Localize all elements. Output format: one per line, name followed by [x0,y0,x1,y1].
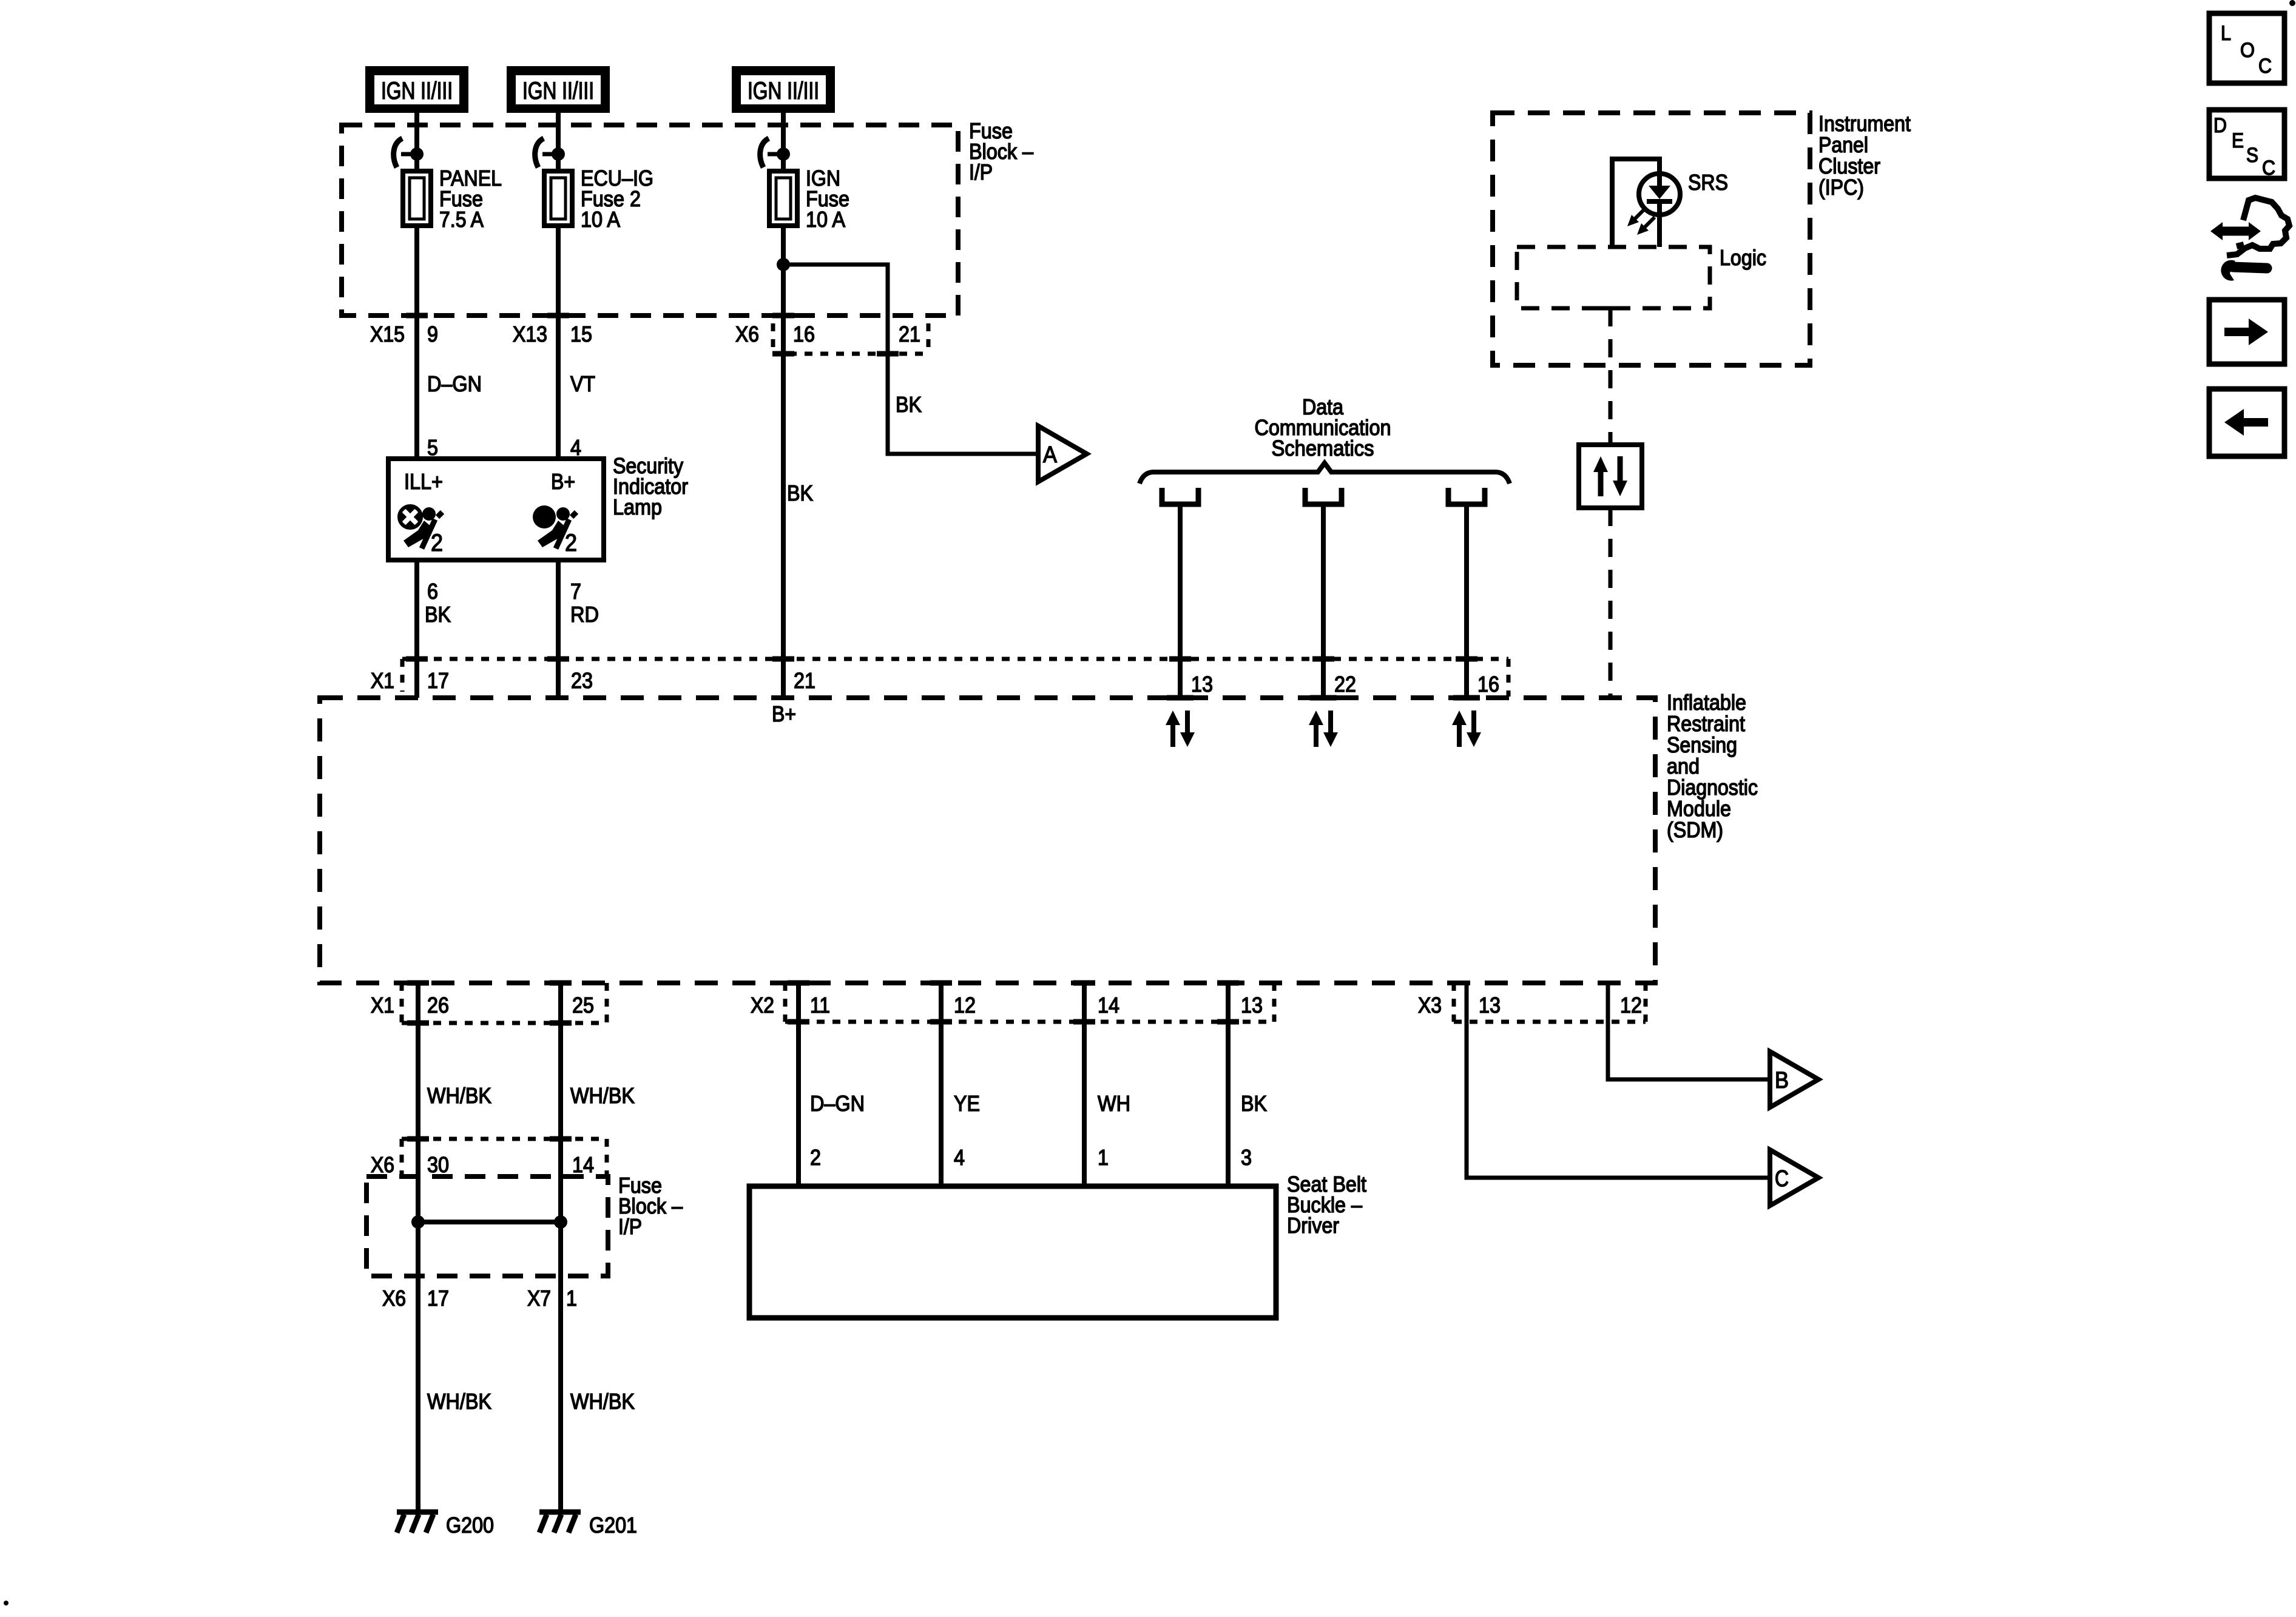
svg-text:1: 1 [566,1286,577,1311]
svg-text:2: 2 [810,1145,821,1170]
svg-text:Driver: Driver [1287,1213,1339,1238]
svg-text:X1: X1 [371,668,394,693]
svg-text:7.5 A: 7.5 A [439,207,484,232]
svg-text:X6: X6 [382,1286,406,1311]
wire: lamp pin7 RD to SDM pin23 [556,560,561,698]
wire: SDM pin26 WH/BK to G200 [416,983,420,1511]
wire: branch BK to connector A [783,265,1038,454]
svg-text:WH/BK: WH/BK [427,1083,491,1108]
svg-text:WH/BK: WH/BK [427,1389,491,1414]
svg-text:26: 26 [427,993,449,1018]
svg-text:17: 17 [427,668,449,693]
svg-text:BK: BK [425,602,451,627]
brace over data link sockets [1140,463,1510,484]
svg-text:6: 6 [427,579,438,604]
connector X2 pins 11/12/14/13 (dotted box) [783,983,788,1022]
svg-text:ILL+: ILL+ [404,469,443,494]
svg-text:X13: X13 [513,322,547,346]
airbag icon 2 [533,505,577,556]
fuse clip hook wire2 [542,152,558,157]
wire: SDM X2 to seat belt buckle x=2024 [1226,983,1231,1186]
pin ticks at fuse block exits [406,313,428,319]
wire: data link 1945 to SDM [1178,507,1183,698]
wire: IGN feed 1 (x=687) to lamp ILL+ [414,113,419,459]
icon box LOC [2209,13,2284,83]
junction G201 leg [554,1215,567,1229]
connector X1 pins 26/25 (dotted box) [400,983,404,1023]
svg-text:B: B [1775,1068,1789,1093]
serial data box [1579,445,1642,508]
svg-text:13: 13 [1191,672,1213,697]
svg-text:2: 2 [431,530,443,556]
svg-text:IGN II/III: IGN II/III [748,78,819,104]
svg-text:Schematics: Schematics [1272,436,1374,461]
svg-text:X7: X7 [527,1286,551,1311]
svg-text:IGN II/III: IGN II/III [381,78,453,104]
power feed box B1 IGN II/III [365,66,468,113]
fuse block I/P outline (dashed) [342,125,958,316]
fuse block I/P (lower) outline (dashed) [366,1176,608,1276]
svg-text:G200: G200 [446,1513,494,1538]
svg-text:Lamp: Lamp [613,495,662,519]
svg-text:16: 16 [1477,672,1499,697]
instrument panel cluster outline (dashed) [1493,113,1810,365]
svg-text:7: 7 [570,579,581,604]
svg-text:30: 30 [427,1152,449,1177]
svg-text:22: 22 [1334,672,1356,697]
svg-text:X15: X15 [370,322,405,346]
svg-text:IGN II/III: IGN II/III [522,78,594,104]
off-page connector A [1038,426,1087,482]
svg-text:12: 12 [954,993,976,1018]
IPC logic box (dashed) [1517,247,1710,308]
wire: SDM pin25 WH/BK to G201 [558,983,563,1511]
svg-text:O: O [2240,39,2255,62]
power feed box B3 IGN II/III [732,66,835,113]
up/down arrows pin x=2181 [1309,711,1338,747]
svg-text:4: 4 [570,435,581,460]
svg-text:(IPC): (IPC) [1818,175,1864,200]
LED SRS indicator [1639,174,1680,215]
wire: logic to SDM (dashed) [1598,306,1622,311]
wire: IGN feed 3 (x=1291) to SDM pin 21 [781,113,786,698]
svg-text:D–GN: D–GN [427,371,482,396]
svg-text:C: C [2262,157,2275,180]
svg-text:VT: VT [570,371,595,396]
svg-text:WH: WH [1098,1091,1130,1116]
svg-text:(SDM): (SDM) [1667,817,1723,842]
svg-text:16: 16 [793,322,815,346]
security indicator lamp box [388,459,604,560]
svg-text:21: 21 [899,322,920,346]
svg-text:10 A: 10 A [806,207,845,232]
SRS lamp circuit loop [1612,159,1660,247]
pin ticks at SDM X1 exits [407,981,429,986]
svg-text:X6: X6 [371,1152,394,1177]
data link socket x=2181 [1305,488,1342,504]
wire: SDM X2 to seat belt buckle x=1316 [796,983,801,1186]
junction G200 leg [411,1215,425,1229]
svg-text:1: 1 [1098,1145,1109,1170]
LED light arrows [1627,209,1655,235]
svg-text:5: 5 [427,435,438,460]
SDM module outline (dashed) [320,698,1655,983]
icon vehicle data / wrench [2210,198,2289,281]
svg-text:C: C [2258,55,2272,78]
junction on wire3 [777,258,790,271]
fuse ECU-IG Fuse 2 10 A [544,171,572,226]
svg-text:E: E [2232,129,2244,152]
up/down arrows in serial data box [1593,456,1627,496]
svg-text:D: D [2213,114,2227,137]
svg-text:13: 13 [1241,993,1263,1018]
svg-text:BK: BK [1241,1091,1267,1116]
svg-text:B+: B+ [772,701,796,726]
ground G200 [397,1512,438,1533]
svg-text:SRS: SRS [1688,170,1728,195]
svg-text:B+: B+ [551,469,575,494]
wire: lamp pin6 BK to SDM pin17 [414,560,419,698]
data link socket x=1945 [1162,488,1198,504]
off-page connector B [1770,1052,1818,1107]
fuse clip hook wire1 [401,152,417,157]
svg-text:BK: BK [787,481,813,505]
icon box arrow left [2209,389,2284,456]
fuse IGN Fuse 10 A [769,171,797,226]
ground G201 [539,1512,581,1533]
wire: data link 2417 to SDM [1464,507,1469,698]
svg-text:X6: X6 [735,322,759,346]
svg-text:BK: BK [896,392,922,417]
svg-text:X1: X1 [371,993,394,1018]
wire: SDM X2 to seat belt buckle x=1551 [939,983,944,1186]
svg-text:14: 14 [572,1152,594,1177]
svg-text:WH/BK: WH/BK [570,1083,635,1108]
airbag icon (crossed) 2 [399,505,443,556]
wire: bridge inside fuse block [418,1220,561,1224]
wire: SDM X3 pin13 to connector C [1467,983,1770,1178]
svg-text:25: 25 [572,993,594,1018]
svg-text:21: 21 [794,668,815,693]
svg-text:9: 9 [427,322,438,346]
power feed box B2 IGN II/III [507,66,610,113]
svg-text:L: L [2221,22,2231,45]
off-page connector C [1770,1150,1818,1206]
svg-text:S: S [2246,144,2258,167]
svg-text:C: C [1775,1166,1789,1192]
wire: data link 2181 to SDM [1321,507,1326,698]
wire: IGN feed 2 (x=920) to lamp B+ [556,113,561,459]
pin ticks at X1 connector row [406,657,428,662]
wire: SDM X3 pin12 to connector B [1608,983,1770,1079]
svg-text:17: 17 [427,1286,449,1311]
svg-text:I/P: I/P [969,160,993,184]
icon box DESC [2209,110,2284,178]
connector X3 pins 13/12 (dotted box) [1452,983,1456,1022]
svg-text:14: 14 [1098,993,1119,1018]
svg-text:15: 15 [570,322,592,346]
svg-text:I/P: I/P [618,1214,642,1239]
seat belt buckle - driver box [749,1186,1276,1318]
fuse clip hook wire3 [768,152,783,157]
svg-text:YE: YE [954,1091,980,1116]
up/down arrows pin x=1945 [1166,711,1195,747]
svg-text:RD: RD [570,602,599,627]
svg-text:12: 12 [1620,993,1642,1018]
connector X6 pins 30/14 (dotted box) [402,1137,607,1141]
connector X1 row (dotted line) [402,657,1508,661]
fuse PANEL Fuse 7.5 A [403,171,431,226]
up/down arrows pin x=2417 [1452,711,1481,747]
svg-text:Logic: Logic [1720,245,1766,270]
svg-text:G201: G201 [589,1513,637,1538]
svg-text:23: 23 [571,668,593,693]
svg-text:WH/BK: WH/BK [570,1389,635,1414]
svg-text:11: 11 [810,993,830,1018]
svg-text:13: 13 [1479,993,1501,1018]
svg-text:4: 4 [954,1145,965,1170]
svg-text:D–GN: D–GN [810,1091,865,1116]
svg-text:3: 3 [1241,1145,1252,1170]
icon box arrow right [2209,300,2284,364]
svg-text:X2: X2 [751,993,774,1018]
connector X6 pins 16/21 (dotted box) [771,323,775,354]
svg-text:10 A: 10 A [581,207,620,232]
svg-text:X3: X3 [1418,993,1442,1018]
page artifact dots [2289,0,2295,6]
svg-text:A: A [1043,442,1058,468]
data link socket x=2417 [1448,488,1485,504]
svg-text:2: 2 [565,530,577,556]
pin ticks at X6 connector [407,1136,429,1142]
wire: SDM X2 to seat belt buckle x=1787 [1082,983,1087,1186]
